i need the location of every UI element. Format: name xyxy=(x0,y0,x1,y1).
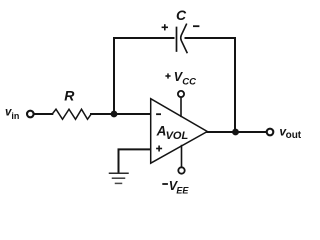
minus sign inverting input xyxy=(156,113,161,115)
op-amp U1 triangle xyxy=(151,99,208,164)
wire vee terminal to op-amp xyxy=(181,146,183,168)
wire feedback top-right xyxy=(186,37,236,39)
wire op-amp output xyxy=(207,131,266,133)
resistor R xyxy=(52,109,91,119)
svg-text:R: R xyxy=(64,88,75,104)
wire vcc terminal to op-amp xyxy=(180,97,182,116)
node junction at output xyxy=(232,129,239,136)
svg-text:VOL: VOL xyxy=(166,130,189,142)
capacitor C curved plate xyxy=(181,24,187,52)
wire right vertical down to output xyxy=(234,38,236,132)
node junction at inverting input xyxy=(111,111,118,118)
vcc terminal circle xyxy=(178,91,184,97)
svg-text:out: out xyxy=(286,130,302,141)
svg-text:CC: CC xyxy=(182,77,196,88)
ground symbol xyxy=(110,173,129,183)
wire input terminal to resistor xyxy=(34,113,53,115)
vee terminal circle xyxy=(178,167,184,173)
svg-text:EE: EE xyxy=(176,185,189,195)
wire resistor to inverting input xyxy=(91,113,150,115)
capacitor C straight plate xyxy=(176,28,178,52)
svg-text:C: C xyxy=(176,7,187,23)
svg-text:in: in xyxy=(11,111,19,121)
minus sign at capacitor xyxy=(193,25,199,27)
wire feedback top-left xyxy=(114,37,174,39)
wire junction up to feedback xyxy=(113,38,115,113)
wire noninverting input to ground xyxy=(119,149,151,171)
plus sign noninverting input xyxy=(156,146,162,152)
output terminal vout xyxy=(267,129,274,136)
input terminal vin xyxy=(27,111,34,118)
label -VEE xyxy=(162,183,168,185)
label +VCC xyxy=(165,73,170,78)
plus sign at capacitor xyxy=(162,24,168,30)
